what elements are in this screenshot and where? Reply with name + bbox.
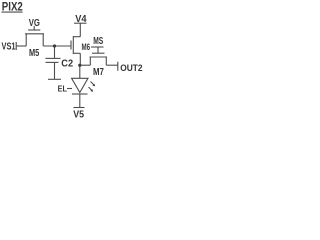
svg-text:V5: V5 (73, 109, 84, 121)
svg-text:OUT2: OUT2 (120, 63, 142, 74)
svg-text:MS: MS (93, 36, 103, 47)
svg-text:EL: EL (58, 84, 67, 93)
svg-text:C2: C2 (61, 58, 73, 69)
svg-text:M6: M6 (82, 42, 91, 53)
svg-text:M5: M5 (29, 48, 40, 59)
svg-text:VG: VG (29, 18, 40, 29)
svg-text:PIX2: PIX2 (2, 0, 23, 14)
svg-text:M7: M7 (93, 67, 104, 78)
svg-text:V4: V4 (75, 14, 87, 25)
svg-text:VS1: VS1 (2, 41, 16, 52)
